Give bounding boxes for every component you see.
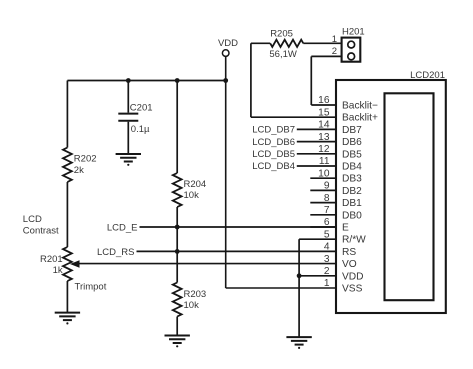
svg-text:R203: R203 [184, 289, 207, 300]
svg-text:Backlit−: Backlit− [342, 101, 378, 112]
svg-text:DB2: DB2 [342, 186, 362, 197]
svg-text:R/*W: R/*W [342, 235, 366, 246]
svg-text:LCD201: LCD201 [410, 70, 445, 81]
svg-text:VDD: VDD [342, 271, 364, 282]
svg-text:H201: H201 [342, 27, 365, 38]
svg-text:LCD_DB5: LCD_DB5 [252, 149, 295, 160]
svg-text:LCD_DB6: LCD_DB6 [252, 137, 295, 148]
svg-text:LCD_DB7: LCD_DB7 [252, 125, 295, 136]
svg-text:4: 4 [324, 242, 330, 253]
svg-text:VDD: VDD [218, 38, 238, 49]
svg-text:1: 1 [324, 278, 330, 289]
svg-text:DB4: DB4 [342, 162, 362, 173]
svg-text:16: 16 [318, 95, 330, 106]
svg-text:0.1µ: 0.1µ [131, 124, 150, 135]
svg-text:10k: 10k [184, 190, 200, 201]
svg-text:Backlit+: Backlit+ [342, 113, 378, 124]
svg-text:R202: R202 [74, 154, 97, 165]
svg-text:LCD_DB4: LCD_DB4 [252, 161, 295, 172]
svg-text:DB7: DB7 [342, 125, 362, 136]
svg-text:LCD_RS: LCD_RS [97, 247, 135, 258]
svg-text:DB1: DB1 [342, 198, 362, 209]
svg-text:DB5: DB5 [342, 149, 362, 160]
svg-text:2k: 2k [74, 165, 84, 176]
svg-text:RS: RS [342, 247, 356, 258]
svg-text:R201: R201 [40, 254, 63, 265]
svg-text:DB0: DB0 [342, 210, 362, 221]
svg-text:VO: VO [342, 259, 357, 270]
svg-text:56,1W: 56,1W [269, 49, 296, 60]
svg-text:15: 15 [318, 107, 330, 118]
svg-text:10k: 10k [184, 300, 200, 311]
svg-text:E: E [342, 223, 349, 234]
svg-text:R205: R205 [270, 29, 293, 40]
svg-text:LCD_E: LCD_E [107, 222, 138, 233]
svg-text:LCD: LCD [23, 214, 42, 225]
svg-text:C201: C201 [130, 103, 153, 114]
svg-text:1: 1 [332, 34, 337, 45]
svg-text:Contrast: Contrast [23, 226, 59, 237]
svg-text:Trimpot: Trimpot [75, 282, 107, 293]
svg-text:R204: R204 [184, 179, 207, 190]
svg-text:1k: 1k [53, 265, 63, 276]
svg-text:2: 2 [332, 46, 337, 57]
svg-text:VSS: VSS [342, 284, 363, 295]
svg-text:3: 3 [324, 254, 330, 265]
svg-text:DB3: DB3 [342, 174, 362, 185]
svg-text:DB6: DB6 [342, 137, 362, 148]
